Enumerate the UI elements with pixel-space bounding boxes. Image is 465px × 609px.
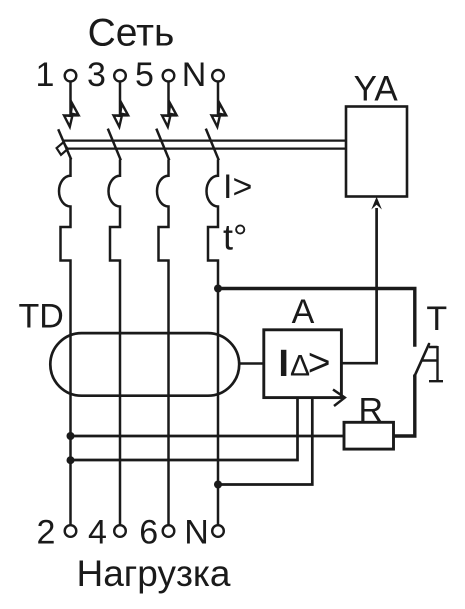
output arrow at A bottom-right corner <box>333 390 345 407</box>
svg-text:R: R <box>359 392 384 430</box>
test button T: moving contact <box>415 344 430 376</box>
svg-text:TD: TD <box>19 298 64 336</box>
svg-text:3: 3 <box>87 56 106 94</box>
svg-text:Нагрузка: Нагрузка <box>77 553 231 594</box>
wire pole1 terminal to release arrow <box>69 81 72 116</box>
terminal circle 2 <box>65 525 77 537</box>
svg-text:N: N <box>182 56 207 94</box>
svg-text:T: T <box>426 300 447 338</box>
trip bar (double line) <box>63 141 346 149</box>
terminal circle 4 <box>114 525 126 537</box>
moving contact pole 4 <box>206 129 219 161</box>
release arrow (bolt) pole 3 <box>161 104 177 127</box>
terminal circle 3 <box>114 70 126 82</box>
junction dot on N wire (amplifier supply tap) <box>214 481 222 489</box>
terminal circle 6 <box>163 525 175 537</box>
pole 1: wire, magnetic release coil, thermal release <box>59 159 70 526</box>
svg-text:2: 2 <box>37 514 56 552</box>
test button T: actuator <box>422 346 444 382</box>
terminal circle N bottom <box>212 525 224 537</box>
release arrow (bolt) pole 4 <box>211 104 227 127</box>
svg-text:YA: YA <box>354 70 399 109</box>
junction dot on wire 1 (test resistor tap) <box>67 432 75 440</box>
release arrow (bolt) pole 1 <box>63 104 79 127</box>
pole 2: wire, magnetic release coil, thermal release <box>109 160 120 526</box>
release arrow (bolt) pole 2 <box>113 104 129 127</box>
svg-text:t°: t° <box>223 217 247 258</box>
terminal circle 1 <box>65 70 77 82</box>
wire pole4 terminal to release arrow <box>217 81 220 116</box>
moving contact pole 2 <box>108 129 121 161</box>
wire from pole1 to resistor R <box>71 435 345 438</box>
svg-text:I>: I> <box>223 168 252 206</box>
trip solenoid YA <box>346 107 407 197</box>
resistor R <box>344 422 394 449</box>
mechanical link diamond on trip bar <box>57 142 68 155</box>
wire amplifier A pin2 to N wire <box>218 398 312 485</box>
wire A output to YA with arrow <box>341 208 376 363</box>
svg-text:>: > <box>308 342 331 385</box>
svg-text:Сеть: Сеть <box>88 12 175 55</box>
terminal circle 5 <box>163 70 175 82</box>
moving contact pole 3 <box>156 129 169 161</box>
moving contact pole 1 <box>58 129 71 159</box>
pole 4 (N): wire, magnetic release coil, thermal release <box>207 160 219 526</box>
arrowhead into YA <box>371 197 382 210</box>
svg-text:6: 6 <box>139 514 158 552</box>
junction dot on N wire (test circuit tap) <box>214 285 222 293</box>
wire switch T to resistor R <box>394 375 415 437</box>
svg-text:I: I <box>278 343 289 385</box>
svg-text:5: 5 <box>135 56 154 94</box>
svg-text:4: 4 <box>88 514 107 552</box>
wire test circuit: N tap to switch T <box>218 289 415 347</box>
wire pole2 terminal to release arrow <box>119 81 122 116</box>
differential transformer TD (toroid) <box>50 333 239 396</box>
amplifier block A <box>264 330 342 398</box>
wire amplifier A pin1 to pole1 <box>71 398 298 460</box>
wire TD secondary to amplifier A <box>239 362 264 365</box>
svg-text:1: 1 <box>36 56 55 94</box>
terminal circle N top <box>212 70 224 82</box>
junction dot on wire 1 (amplifier supply tap) <box>67 456 75 464</box>
wire pole3 terminal to release arrow <box>167 81 170 116</box>
svg-text:N: N <box>184 514 209 552</box>
pole 3: wire, magnetic release coil, thermal release <box>157 160 169 526</box>
svg-text:A: A <box>292 293 315 331</box>
